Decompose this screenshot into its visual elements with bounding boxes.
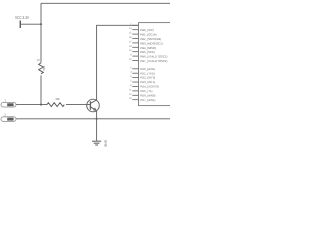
- power symbol VCC 3.3V: [15, 15, 29, 28]
- svg-text:9: 9: [130, 54, 132, 57]
- IC U1 port B pin numbers: [129, 23, 132, 61]
- svg-text:PB4_(MISO): PB4_(MISO): [140, 46, 156, 50]
- svg-text:PB7_(XTAL2/TOSC2): PB7_(XTAL2/TOSC2): [140, 59, 167, 63]
- svg-text:13: 13: [129, 97, 132, 100]
- IC U1 port D pin group stubs: [132, 69, 138, 100]
- transistor Q1 NPN: [87, 99, 100, 112]
- svg-text:4: 4: [130, 75, 132, 78]
- IC U1 port D pin numbers: [129, 66, 132, 100]
- svg-text:19: 19: [129, 49, 132, 52]
- svg-text:R?: R?: [37, 59, 41, 62]
- wire bottom rail: [16, 118, 170, 120]
- svg-text:3: 3: [130, 71, 132, 74]
- svg-text:1: 1: [4, 113, 6, 117]
- svg-text:15: 15: [129, 32, 132, 35]
- svg-text:17: 17: [129, 40, 132, 43]
- wire base node left to header J1: [16, 104, 47, 106]
- resistor R2 (horizontal base resistor): [47, 103, 64, 107]
- header J2 pin (lower pill): [1, 113, 16, 122]
- svg-text:PD3_(INT1): PD3_(INT1): [140, 80, 155, 84]
- svg-text:10: 10: [129, 58, 132, 61]
- IC U1 port B pin group stubs: [132, 25, 138, 60]
- svg-text:10k: 10k: [55, 97, 60, 101]
- svg-text:PD6_(AIN0): PD6_(AIN0): [140, 93, 155, 97]
- node junction dot at base node: [40, 104, 42, 106]
- svg-text:PB5_(SCK): PB5_(SCK): [140, 50, 155, 54]
- wire collector to IC pin: [97, 25, 139, 100]
- svg-text:PB6_(XTAL1/TOSC1): PB6_(XTAL1/TOSC1): [140, 55, 167, 59]
- svg-text:18: 18: [129, 45, 132, 48]
- svg-text:14: 14: [129, 27, 132, 30]
- svg-text:PD2_(INT0): PD2_(INT0): [140, 76, 155, 80]
- svg-text:PB0_(ICP): PB0_(ICP): [140, 28, 153, 32]
- node junction dot at VCC tee: [40, 23, 42, 25]
- svg-text:16: 16: [129, 36, 132, 39]
- header J1 pin (upper pill): [1, 99, 16, 107]
- IC U1 box: [139, 23, 173, 106]
- svg-text:PB1_(OC1A): PB1_(OC1A): [140, 33, 156, 37]
- svg-text:PD7_(AIN1): PD7_(AIN1): [140, 98, 155, 102]
- svg-text:GND: GND: [103, 140, 107, 148]
- resistor R1 (vertical pull-up): [39, 63, 44, 74]
- wire vertical VCC drop: [40, 3, 42, 63]
- svg-text:PD4_(XCK/T0): PD4_(XCK/T0): [140, 85, 159, 89]
- svg-text:PD0_(RXD): PD0_(RXD): [140, 67, 155, 71]
- svg-text:5: 5: [130, 80, 132, 83]
- node junction dot at emitter/bottom rail: [96, 118, 98, 120]
- wire R2 to transistor base: [66, 104, 87, 106]
- svg-text:10k: 10k: [42, 66, 46, 71]
- transistor Q1 emitter arrow: [93, 107, 97, 110]
- svg-text:PD1_(TXD): PD1_(TXD): [140, 71, 155, 75]
- IC U1 port D pin labels: [140, 67, 159, 102]
- svg-text:PD5_(T1): PD5_(T1): [140, 89, 152, 93]
- svg-text:12: 12: [129, 93, 132, 96]
- wire emitter to ground: [96, 111, 98, 141]
- ground symbol: [92, 141, 101, 145]
- svg-text:PB3_(MOSI/OC2): PB3_(MOSI/OC2): [140, 41, 162, 45]
- wire power to rail: [21, 23, 41, 25]
- wire resistor R1 to base node: [40, 75, 42, 104]
- IC U1 port B pin labels: [140, 28, 167, 63]
- wire top rail: [41, 2, 170, 4]
- svg-text:6: 6: [130, 84, 132, 87]
- svg-text:VCC 3.3V: VCC 3.3V: [15, 15, 29, 20]
- svg-text:11: 11: [129, 88, 132, 91]
- svg-text:PB2_(SS/OC1B): PB2_(SS/OC1B): [140, 37, 161, 41]
- svg-text:2: 2: [130, 66, 132, 69]
